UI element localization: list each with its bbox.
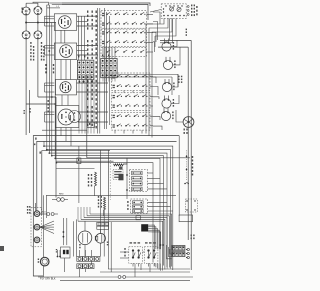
svg-text:P1Y GRY BLK: P1Y GRY BLK [40, 277, 56, 280]
svg-text:RED: RED [59, 194, 64, 196]
svg-text:BLK: BLK [42, 212, 46, 214]
